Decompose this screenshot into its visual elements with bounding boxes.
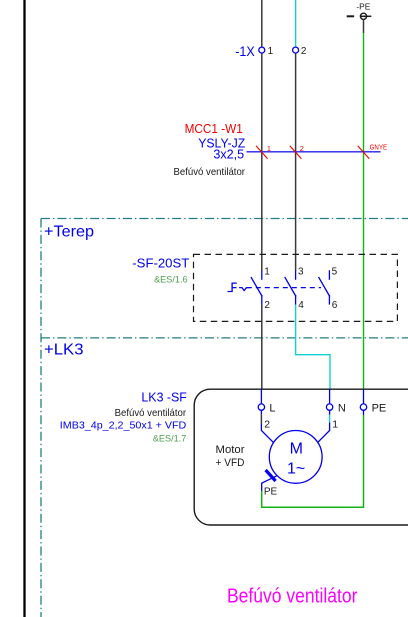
svg-text:Befúvó ventilátor: Befúvó ventilátor: [174, 167, 246, 178]
svg-text:-PE: -PE: [356, 2, 370, 11]
svg-text:1: 1: [264, 267, 270, 278]
svg-text:IMB3_4p_2,2_50x1 + VFD: IMB3_4p_2,2_50x1 + VFD: [60, 421, 187, 432]
svg-text:2: 2: [264, 300, 270, 311]
svg-text:PE: PE: [264, 486, 278, 497]
svg-text:MCC1 -W1: MCC1 -W1: [185, 121, 243, 136]
svg-text:3x2,5: 3x2,5: [213, 147, 244, 162]
svg-text:LK3 -SF: LK3 -SF: [141, 390, 187, 405]
svg-text:N: N: [338, 403, 346, 415]
svg-text:4: 4: [298, 300, 304, 311]
svg-text:1~: 1~: [287, 460, 305, 477]
svg-text:1: 1: [268, 46, 274, 57]
svg-text:+LK3: +LK3: [44, 342, 84, 359]
svg-text:L: L: [269, 403, 275, 415]
svg-text:Befúvó ventilátor: Befúvó ventilátor: [115, 408, 187, 419]
svg-text:1: 1: [332, 418, 338, 430]
svg-text:+Terep: +Terep: [44, 223, 94, 240]
svg-text:1: 1: [267, 144, 271, 153]
svg-text:6: 6: [332, 300, 338, 311]
svg-text:-1X: -1X: [235, 43, 255, 59]
svg-text:3: 3: [298, 267, 304, 278]
svg-text:5: 5: [332, 267, 338, 278]
svg-text:-SF-20ST: -SF-20ST: [132, 256, 189, 271]
svg-text:2: 2: [264, 418, 270, 430]
svg-text:2: 2: [300, 144, 304, 153]
svg-text:Befúvó ventilátor: Befúvó ventilátor: [227, 586, 358, 608]
svg-text:+ VFD: + VFD: [216, 457, 245, 469]
svg-text:2: 2: [301, 46, 307, 57]
svg-text:Motor: Motor: [216, 444, 245, 456]
svg-text:&ES/1.6: &ES/1.6: [154, 275, 188, 286]
svg-text:M: M: [290, 441, 303, 458]
svg-text:&ES/1.7: &ES/1.7: [153, 434, 187, 445]
svg-text:GNYE: GNYE: [370, 145, 388, 152]
svg-text:PE: PE: [372, 403, 387, 415]
